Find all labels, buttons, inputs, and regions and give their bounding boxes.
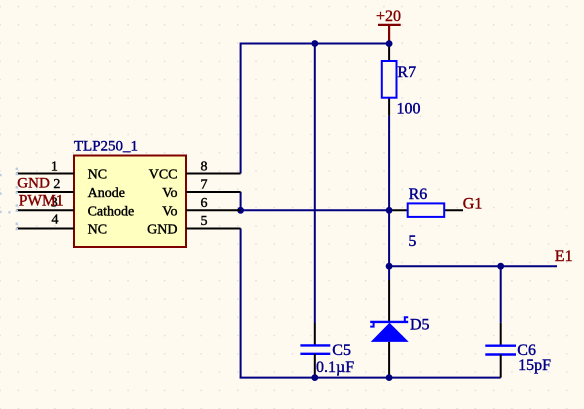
svg-text:+20: +20 bbox=[376, 8, 401, 25]
svg-text:D5: D5 bbox=[410, 316, 430, 333]
svg-text:Vo: Vo bbox=[162, 186, 177, 201]
svg-text:E1: E1 bbox=[555, 248, 573, 265]
svg-text:5: 5 bbox=[408, 233, 416, 250]
node junction bottom C5 bbox=[311, 374, 318, 381]
wire C5 branch vertical bbox=[314, 44, 316, 324]
svg-text:C5: C5 bbox=[332, 342, 351, 359]
svg-text:PWM1: PWM1 bbox=[19, 192, 64, 209]
svg-text:NC: NC bbox=[88, 223, 107, 238]
wire vertical E1 node to D5 bbox=[388, 266, 390, 280]
capacitor C6 bbox=[485, 323, 551, 378]
svg-text:NC: NC bbox=[88, 168, 107, 183]
wire vertical bus x=240.6 pin8 up bbox=[240, 43, 242, 174]
wire vertical R7 to R6 node bbox=[388, 116, 390, 266]
svg-text:6: 6 bbox=[201, 196, 208, 211]
pin 7 wire bbox=[186, 191, 241, 193]
svg-text:1: 1 bbox=[51, 159, 58, 174]
svg-text:5: 5 bbox=[201, 214, 208, 229]
svg-text:Cathode: Cathode bbox=[88, 204, 135, 219]
capacitor C5 bbox=[300, 323, 354, 378]
wire vertical pin7 to pin6 net bbox=[240, 192, 242, 211]
pin 8 wire bbox=[186, 173, 241, 175]
wire top horizontal bbox=[241, 43, 390, 45]
node junction E1 C6 bbox=[497, 263, 504, 270]
svg-text:Anode: Anode bbox=[88, 186, 125, 201]
pin 2 wire bbox=[17, 191, 75, 193]
wire E1 horizontal bbox=[389, 265, 557, 267]
pin 4 wire bbox=[17, 228, 75, 230]
svg-text:GND: GND bbox=[147, 223, 177, 238]
wire bottom horizontal bbox=[240, 377, 501, 379]
pin 3 wire bbox=[17, 209, 75, 211]
svg-text:15pF: 15pF bbox=[518, 357, 551, 374]
wire C6 branch vertical bbox=[500, 266, 502, 323]
pin 6 wire bbox=[186, 209, 241, 211]
power symbol +20 bbox=[376, 8, 401, 44]
diode D5 (zener) bbox=[370, 280, 429, 378]
resistor R6 bbox=[389, 186, 463, 250]
pin 1 wire bbox=[17, 173, 75, 175]
node junction E1 left bbox=[386, 263, 393, 270]
svg-text:0.1µF: 0.1µF bbox=[316, 359, 354, 376]
wire vertical pin5 down to bottom bbox=[240, 228, 242, 377]
svg-text:4: 4 bbox=[52, 212, 59, 227]
wire pin6 net horizontal bbox=[241, 209, 390, 211]
svg-text:2: 2 bbox=[53, 177, 60, 192]
svg-text:VCC: VCC bbox=[149, 168, 178, 183]
svg-text:G1: G1 bbox=[463, 195, 483, 212]
node junction top C5 branch bbox=[311, 40, 318, 47]
node junction pin6 bbox=[237, 207, 244, 214]
svg-text:GND: GND bbox=[17, 175, 50, 191]
op-amp U1 TLP250_1 body bbox=[74, 138, 186, 247]
svg-text:R7: R7 bbox=[397, 64, 416, 81]
svg-text:100: 100 bbox=[397, 100, 421, 117]
svg-text:Vo: Vo bbox=[162, 204, 177, 219]
resistor R7 bbox=[382, 44, 421, 118]
node junction R6 left bbox=[386, 207, 393, 214]
svg-text:R6: R6 bbox=[409, 186, 428, 203]
pin 5 wire bbox=[186, 228, 241, 230]
svg-text:TLP250_1: TLP250_1 bbox=[74, 138, 138, 154]
node junction at +20 bbox=[386, 40, 393, 47]
svg-text:8: 8 bbox=[201, 159, 208, 174]
wire endpoint markers (light) bbox=[0, 168, 18, 231]
svg-text:7: 7 bbox=[201, 178, 208, 193]
node junction bottom D5 bbox=[386, 374, 393, 381]
